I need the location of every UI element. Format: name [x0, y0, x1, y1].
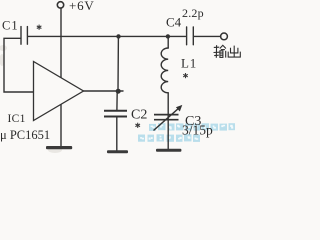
svg-text:C2: C2 [131, 108, 147, 123]
svg-text:3/15p: 3/15p [182, 123, 213, 138]
svg-text:IC1: IC1 [8, 113, 26, 125]
svg-text:+6V: +6V [69, 0, 95, 13]
svg-text:2.2p: 2.2p [182, 6, 204, 20]
svg-text:L1: L1 [181, 56, 197, 71]
svg-text:C1: C1 [2, 19, 19, 33]
svg-text:μ PC1651: μ PC1651 [0, 128, 50, 142]
svg-text:C4: C4 [166, 14, 182, 29]
